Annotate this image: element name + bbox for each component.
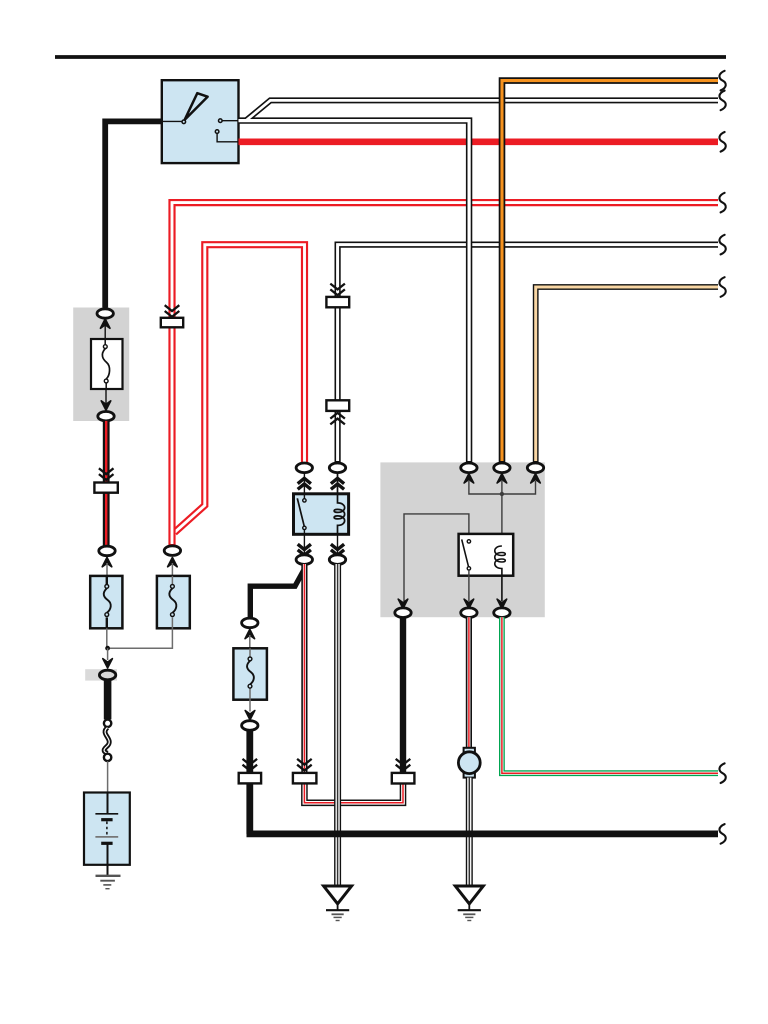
wire: very thick battery cable xyxy=(104,680,112,720)
connector ellipse top 3 xyxy=(527,463,543,473)
wire: thick black relay block output down xyxy=(400,617,406,773)
connector ellipse above fuse F3 xyxy=(242,618,258,628)
wire: F1 output down xyxy=(106,628,108,648)
lead down from junction xyxy=(107,648,109,660)
fusible link FL xyxy=(91,339,123,389)
inline connector block 1 on white wire W2 xyxy=(326,297,349,307)
wire: white double-line to relay coil (W2) xyxy=(338,245,718,464)
relay box xyxy=(294,494,349,535)
internal relay coil xyxy=(495,546,506,601)
arrow into ellipse (down) xyxy=(101,401,111,410)
wire: white ground wire from relay coil side xyxy=(334,564,341,887)
inline connector chevron on red wire A xyxy=(165,305,180,317)
arrows into relay ellipses xyxy=(298,478,344,489)
connector ellipse (gray) xyxy=(99,670,115,680)
motor M xyxy=(458,748,480,778)
fuse F3 xyxy=(233,648,267,699)
connector ellipse below relay right xyxy=(329,555,345,565)
arrow into ellipse (up) xyxy=(168,557,178,566)
connector ellipse above fuse F1 xyxy=(99,546,115,556)
ground symbol right xyxy=(455,886,483,921)
terminal circle upper xyxy=(104,720,111,727)
battery ground xyxy=(96,876,121,889)
connector ellipse bottom 3 xyxy=(494,608,510,618)
connector ellipse above fuse F2 xyxy=(164,546,180,556)
wire: white ground wire from motor xyxy=(466,778,473,887)
arrow into ellipse (up) xyxy=(100,319,110,328)
fusible link shaded block xyxy=(73,308,129,422)
wire: black w/ red stripe down to fuse F1 xyxy=(103,421,110,546)
arrows out of relay down xyxy=(298,534,344,555)
wire: white w/ red stripe to motor xyxy=(466,617,472,748)
lead into fuse F1 xyxy=(106,563,108,577)
connector ellipse top 1 xyxy=(461,463,477,473)
wire: green w/ red stripe to right edge xyxy=(502,617,718,773)
arrow into ellipse (up) xyxy=(102,557,112,566)
inline connector block xyxy=(392,773,415,784)
wire: thick black feed from ignition switch down left column xyxy=(105,121,162,310)
inline connector chevron xyxy=(243,759,258,771)
ignition switch contact 1 (to white wire) xyxy=(219,119,239,123)
flexible cable squiggle xyxy=(104,728,109,754)
inline connector block xyxy=(293,773,317,784)
arrow into ellipse (up) xyxy=(245,629,255,638)
inline connector chevron on white wire W2 xyxy=(330,284,345,296)
internal wiring from top connectors xyxy=(469,481,536,546)
terminal circle lower xyxy=(104,754,111,761)
inline connector chevron xyxy=(99,468,114,480)
wire: white w/ red stripe relay output down xyxy=(301,564,307,773)
wire: tan double-line lower (T2) xyxy=(536,287,718,463)
inline connector block 2 on white wire W2 xyxy=(326,400,349,411)
ground symbol left xyxy=(324,886,352,921)
connector ellipse below relay left xyxy=(296,555,312,565)
lead into fuse F3 xyxy=(249,635,251,649)
relay switch contact xyxy=(297,473,306,535)
wire: red double-line loop to relay xyxy=(174,245,304,533)
battery cells symbol xyxy=(95,793,118,876)
inline connector chevron xyxy=(297,759,312,771)
inline connector block xyxy=(94,483,117,493)
ignition switch box xyxy=(162,80,239,163)
wire: thick red output to right edge xyxy=(239,139,719,146)
battery box xyxy=(84,793,130,865)
continuation squiggle thick red wire xyxy=(719,132,725,152)
continuation squiggle red double wire xyxy=(719,193,725,213)
lead to battery xyxy=(107,761,109,793)
lead wire out of fusible link xyxy=(105,389,107,412)
internal wiring to switch and output xyxy=(404,514,469,601)
lead out of fuse F3 xyxy=(249,700,251,712)
connector ellipse below fuse F3 xyxy=(242,721,258,731)
ignition switch contact 2 (to red wire) xyxy=(215,130,238,142)
arrows into top ellipses xyxy=(464,474,540,483)
lead wire to fusible link xyxy=(104,322,106,340)
junction node xyxy=(105,646,110,651)
inline connector chevron xyxy=(396,759,411,771)
gray connector band xyxy=(85,669,117,680)
wire: red double-line (to fuse column) xyxy=(172,203,718,546)
wire: F2 output elbow joining F1 output xyxy=(109,628,172,648)
fuse F1 xyxy=(90,576,122,628)
connector ellipse above relay left xyxy=(296,463,312,473)
wire: thick black down to ground bus corner xyxy=(246,730,253,834)
connector ellipse into fusible link block xyxy=(97,309,113,318)
junction node xyxy=(500,492,504,496)
inline connector chevron up on white wire W2 xyxy=(330,413,345,425)
continuation squiggle ground bus xyxy=(719,824,725,844)
continuation squiggle tan wire T2 xyxy=(719,277,725,297)
arrows into bottom ellipses xyxy=(398,599,507,608)
wire: white double-line from switch turning down (W-vert) xyxy=(239,121,470,464)
internal relay switch xyxy=(462,539,471,601)
continuation squiggle white wire W1 xyxy=(719,91,725,111)
connector ellipse above relay right xyxy=(329,463,345,473)
top border rule xyxy=(55,55,726,59)
continuation squiggle orange wire T1 xyxy=(719,71,725,91)
wire: thick black ground bus to right edge xyxy=(247,831,719,838)
wire: red/white U link between connectors xyxy=(304,783,403,803)
ignition switch lever xyxy=(162,93,208,123)
lead into fuse F2 xyxy=(171,563,173,577)
connector ellipse bottom 1 xyxy=(395,608,411,618)
wire: thick black branch to fuse F3 xyxy=(250,571,303,620)
connector ellipse bottom 2 xyxy=(461,608,477,618)
wire: white double-line branch to right edge (W1) xyxy=(239,100,719,461)
connector ellipse out of fusible link block xyxy=(98,412,114,421)
fuse F2 xyxy=(157,576,190,628)
internal relay box xyxy=(459,534,514,576)
arrow into ellipse (down) xyxy=(103,659,113,668)
continuation squiggle green/red wire xyxy=(719,763,725,783)
arrow into ellipse (down) xyxy=(245,711,255,720)
relay block shaded box xyxy=(380,462,544,617)
inline connector block on red wire A xyxy=(161,318,183,328)
connector ellipse top 2 xyxy=(494,463,510,473)
inline connector block xyxy=(239,773,261,784)
continuation squiggle white wire W2 xyxy=(719,235,725,255)
relay coil xyxy=(334,473,345,535)
wire: orange double-line (T1) xyxy=(502,81,718,464)
